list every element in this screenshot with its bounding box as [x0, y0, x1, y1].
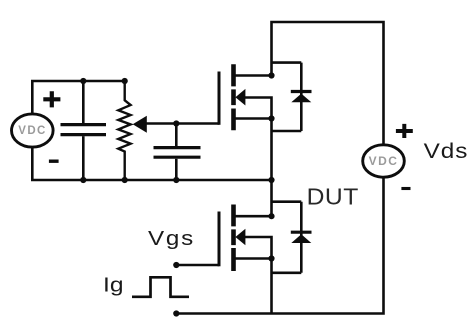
junction node (wiper wire / cap2 top) [173, 120, 179, 126]
diode D2 triangle [291, 234, 311, 243]
junction node (Q2 drain) [268, 213, 274, 219]
mosfet Q1 gate bar [218, 72, 221, 125]
junction node (Q1 source) [268, 115, 274, 121]
minus label (left source) [49, 159, 59, 162]
minus label (Vds) [401, 187, 410, 190]
svg-text:VDC: VDC [369, 154, 399, 168]
current pulse symbol Ig [132, 277, 189, 297]
junction node (Q2 source) [268, 255, 274, 261]
junction node (pot top) [122, 78, 128, 84]
plus label (left source) [43, 91, 60, 107]
wire (left source top lead + top-left rail) [32, 81, 126, 114]
mosfet Q1 drain stub [235, 74, 273, 77]
mosfet Q1 body arrow [235, 89, 245, 106]
capacitor C1 plates [61, 125, 107, 135]
wire (Q2 body to source) [244, 237, 272, 259]
junction node (cap2 bottom) [173, 177, 179, 183]
plus label (Vds) [396, 124, 413, 138]
svg-text:Vds: Vds [424, 139, 469, 163]
junction node (cap1 bottom) [80, 177, 86, 183]
svg-text:Ig: Ig [103, 274, 124, 296]
diode D1 triangle [291, 94, 311, 103]
capacitor C2 plates [154, 148, 201, 158]
wire (Q1 source down mid node) [270, 119, 273, 217]
junction node (mid rail to half-bridge) [268, 177, 274, 183]
capacitor C2 top lead [175, 124, 178, 147]
svg-text:Vgs: Vgs [148, 227, 195, 250]
svg-text:VDC: VDC [18, 125, 46, 137]
voltage source VDC (left) [12, 114, 54, 147]
capacitor C2 bottom lead [175, 159, 178, 180]
mosfet Q1 source stub [235, 117, 273, 120]
mosfet Q2 (DUT) gate bar [218, 212, 221, 267]
diode D1 cathode bar [291, 90, 312, 93]
mosfet Q1 channel bar [231, 64, 236, 130]
junction node (cap1 top) [80, 78, 86, 84]
wire (wiper to upper gate) [145, 122, 219, 125]
svg-text:DUT: DUT [307, 184, 359, 210]
junction node (Q1 drain) [268, 72, 274, 78]
diode D1 anode/cathode branch wires [272, 63, 302, 131]
wire (left source bottom lead + bottom-left rail) [32, 147, 271, 180]
potentiometer wiper arrow [133, 116, 147, 133]
terminal node (Vgs) [173, 262, 179, 268]
mosfet Q2 drain stub [235, 215, 273, 218]
wire (Q2 source down to bottom rail) [270, 259, 273, 314]
wire (Q1 drain up, top rail, right rail upper) [272, 22, 384, 145]
capacitor C1 top lead [82, 81, 85, 123]
wire (bottom rail + right rail lower) [176, 177, 383, 313]
diode D2 cathode bar [291, 231, 312, 234]
terminal node (bottom) [173, 310, 179, 316]
capacitor C1 bottom lead [82, 136, 85, 180]
mosfet Q2 source stub [235, 257, 273, 260]
voltage source VDC (right, Vds) [363, 145, 405, 177]
wire (Vgs gate lead) [176, 264, 219, 267]
junction node (pot bottom) [122, 177, 128, 183]
mosfet Q2 body arrow [235, 229, 245, 246]
diode D2 anode/cathode branch wires [272, 202, 302, 273]
mosfet Q2 channel bar [231, 205, 236, 272]
potentiometer R1 [118, 81, 130, 180]
wire (Q1 body to source) [244, 98, 272, 119]
